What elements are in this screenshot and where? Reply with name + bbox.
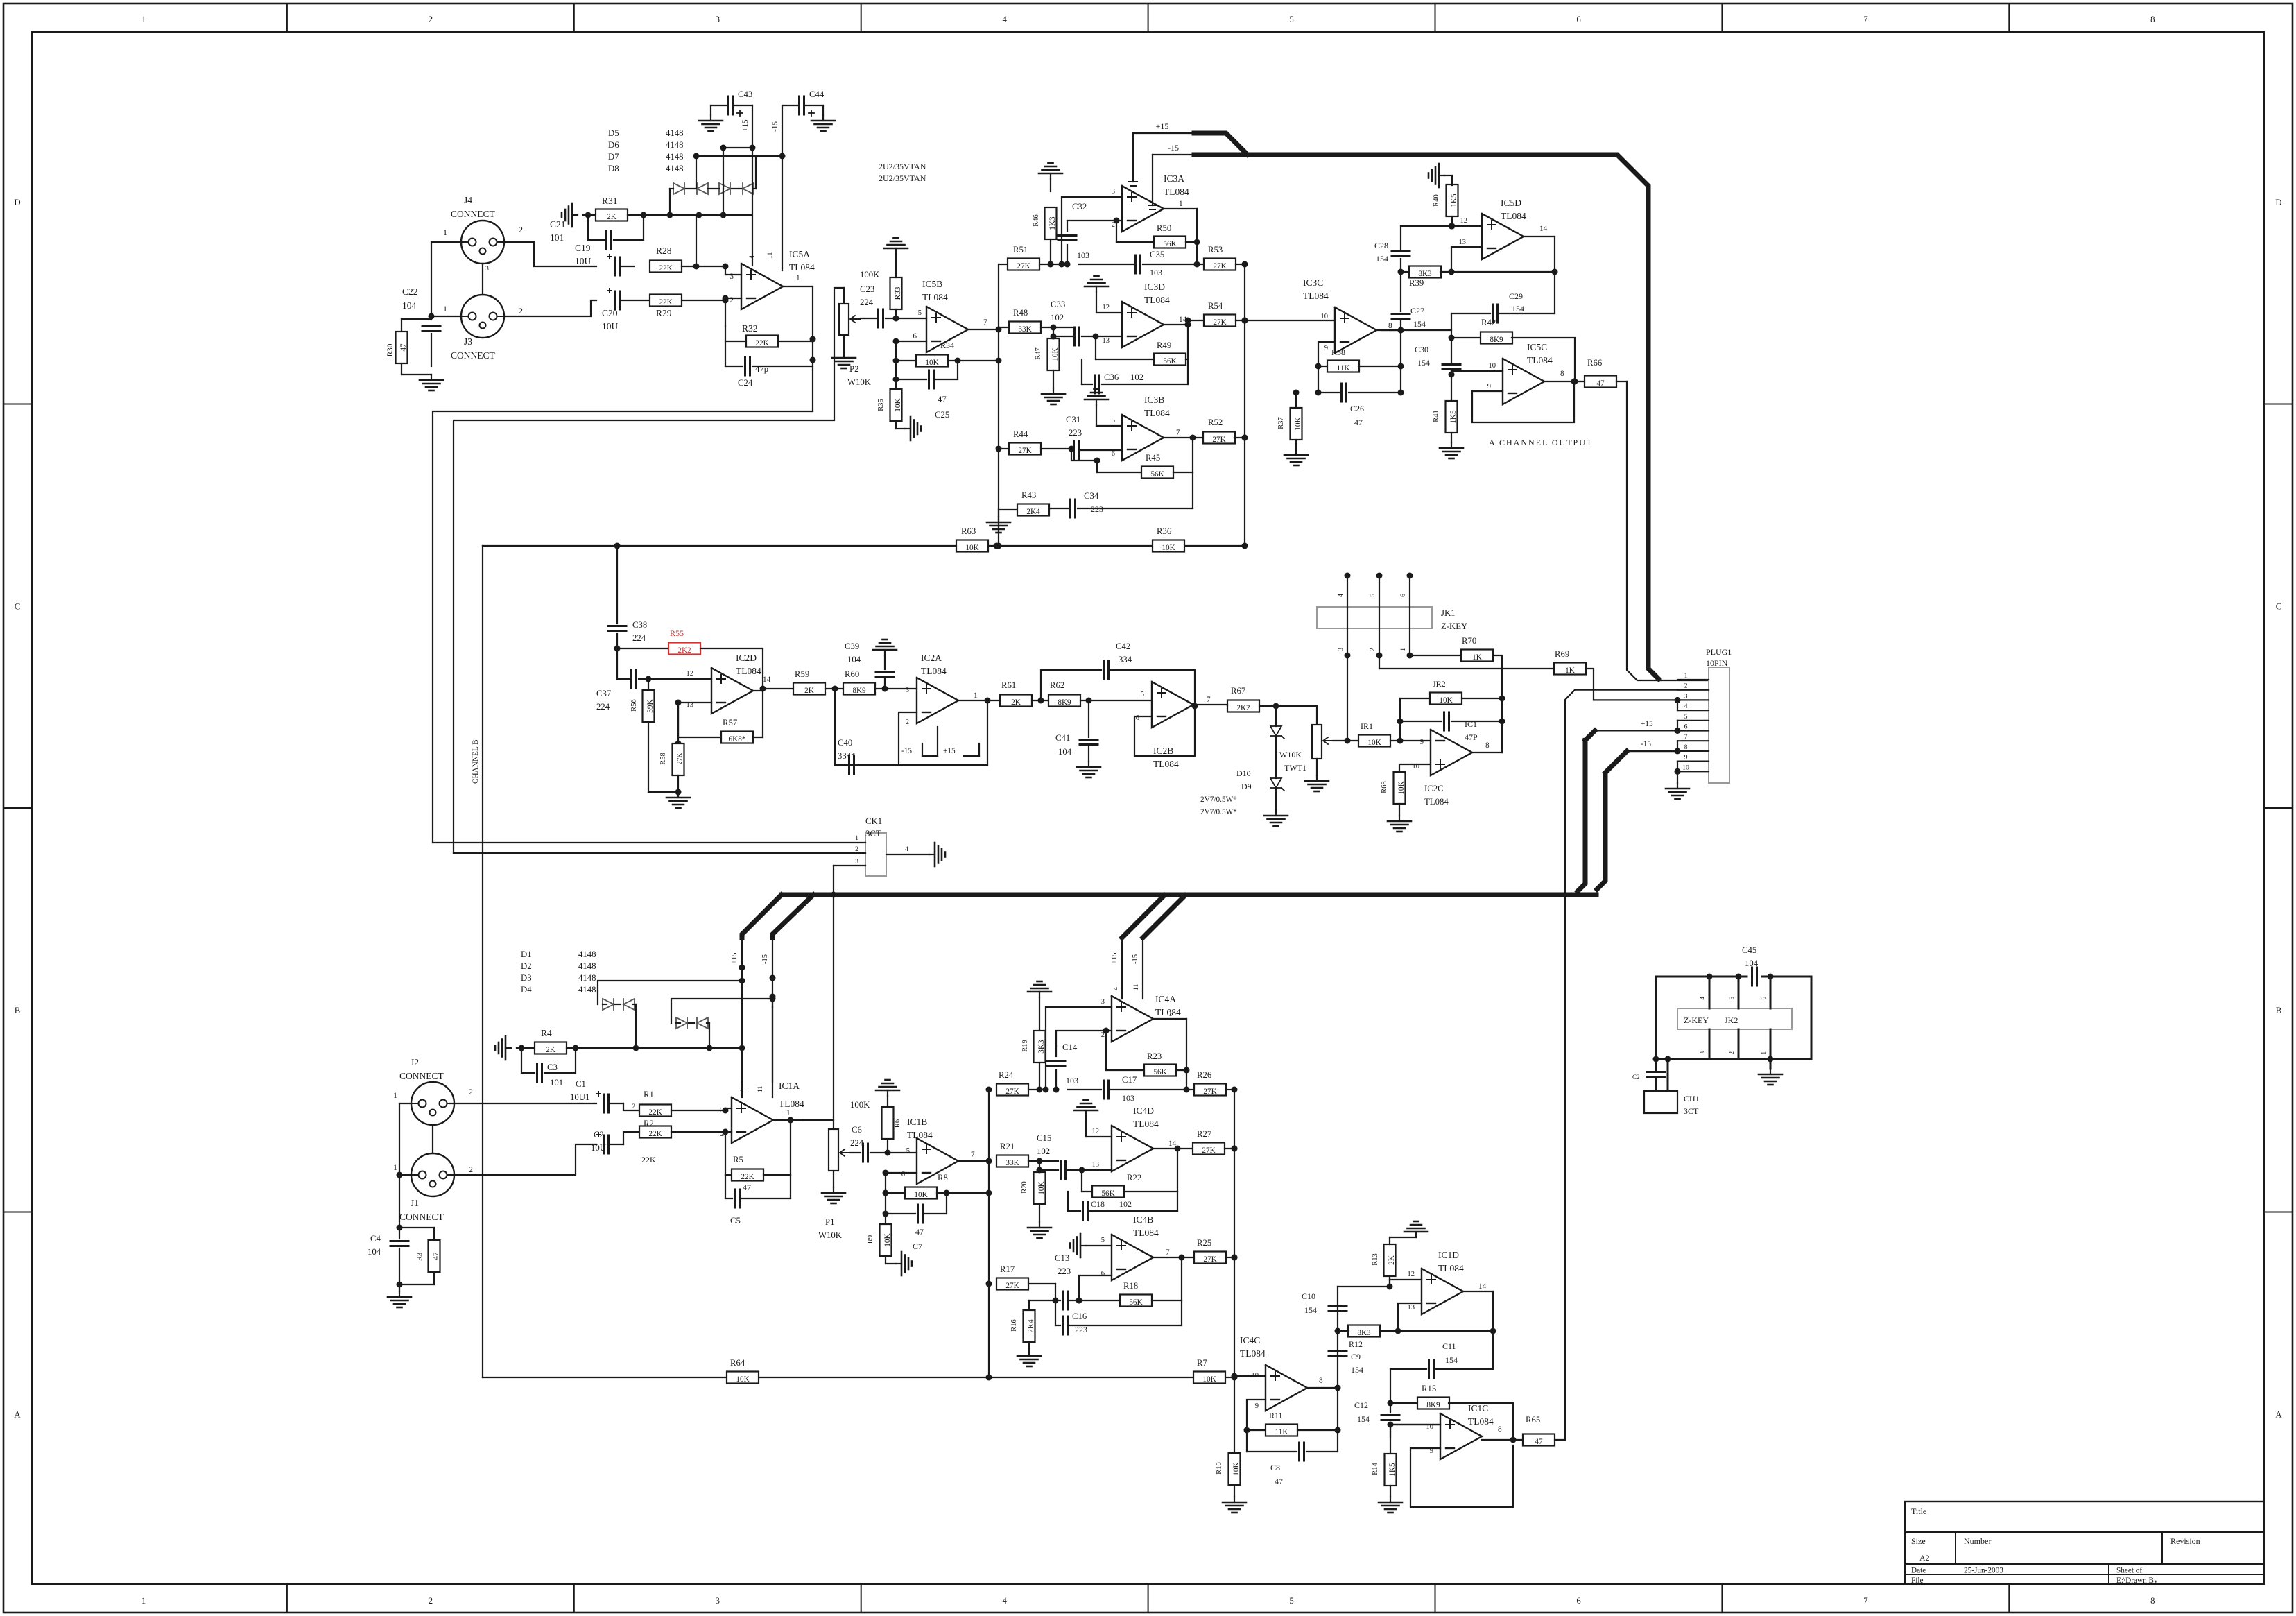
resistor R20 [1021,1158,1046,1223]
svg-text:C2: C2 [1632,1074,1640,1081]
svg-text:7: 7 [971,1151,975,1159]
svg-text:R54: R54 [1208,301,1223,311]
wire J2.1 J1.1 to C4 [397,1103,412,1239]
svg-text:1: 1 [141,1596,146,1606]
svg-text:22K: 22K [641,1155,656,1164]
wire IC2C out [1472,698,1502,753]
svg-text:5: 5 [1369,594,1376,597]
resistor R68 [1381,772,1406,816]
resistor R25 [1182,1238,1238,1264]
svg-text:2: 2 [429,1596,433,1606]
svg-text:102: 102 [1037,1146,1050,1156]
svg-text:C1: C1 [576,1079,586,1089]
svg-text:5: 5 [1684,713,1688,721]
wire C34 branch [1071,450,1100,464]
svg-text:4: 4 [748,255,756,259]
svg-text:1: 1 [1168,1010,1173,1018]
capacitor C16 [1055,1300,1182,1334]
svg-text:+15: +15 [1156,121,1169,131]
svg-text:154: 154 [1445,1355,1458,1365]
svg-text:6: 6 [1760,997,1767,1000]
label A CHANNEL OUTPUT [1489,438,1593,447]
wire PLUG1 pin3 row [1594,699,1677,700]
svg-text:5: 5 [1101,1237,1105,1244]
op-amp IC5A [730,249,815,309]
svg-text:8: 8 [1560,370,1564,378]
diode D7 [719,183,730,194]
svg-text:R55: R55 [670,628,684,638]
wire IC2B -in loop [1134,703,1198,757]
svg-text:R68: R68 [1381,781,1388,793]
svg-text:1: 1 [393,1090,397,1100]
svg-text:10K: 10K [1439,696,1453,705]
svg-text:10U: 10U [575,256,592,266]
svg-text:R67: R67 [1231,686,1245,696]
wire C38 tap [616,546,618,624]
svg-text:IC5D: IC5D [1501,198,1521,208]
svg-text:TL084: TL084 [779,1099,804,1109]
svg-text:1K3: 1K3 [1048,216,1057,230]
svg-text:154: 154 [1413,319,1426,329]
wire IC1C R14 node [1388,1422,1394,1454]
svg-text:D5: D5 [608,128,619,138]
wire IC1D out [1463,1291,1496,1369]
ground C44 [811,105,835,131]
capacitor C30 [1415,338,1460,378]
power -15 IC5A [771,105,782,270]
ground PLUG1 pin10 [1666,771,1689,799]
ground J1 input [388,1291,411,1307]
svg-text:C6: C6 [852,1125,862,1135]
svg-text:22K: 22K [648,1108,662,1117]
wire J3.1 node [429,313,462,320]
svg-text:TL084: TL084 [1144,408,1170,418]
svg-text:10K: 10K [914,1191,928,1199]
svg-text:R35: R35 [877,399,885,411]
ground J3 input [420,375,443,390]
svg-text:IC2A: IC2A [921,653,942,663]
svg-text:R43: R43 [1021,490,1036,500]
svg-text:C21: C21 [550,219,566,230]
svg-text:5: 5 [1141,691,1144,698]
svg-text:8K9: 8K9 [1058,698,1071,707]
svg-text:A: A [14,1410,21,1420]
svg-text:5: 5 [1728,997,1735,1000]
capacitor C12 [1354,1400,1399,1437]
wire J4.1 to C22 node [431,242,461,320]
svg-text:R47: R47 [1035,347,1042,360]
resistor R23 [1103,1028,1187,1077]
svg-text:R9: R9 [867,1235,874,1244]
svg-text:R69: R69 [1555,649,1569,659]
svg-text:2U2/35VTAN: 2U2/35VTAN [879,162,926,171]
svg-text:12: 12 [1092,1128,1100,1135]
svg-text:R14: R14 [1372,1463,1379,1475]
svg-text:IC4B: IC4B [1133,1214,1153,1225]
wire IC1D +in [1390,1280,1422,1287]
svg-text:4: 4 [1337,594,1345,597]
svg-text:R52: R52 [1208,418,1223,427]
svg-text:2V7/0.5W*: 2V7/0.5W* [1200,796,1237,804]
svg-text:104: 104 [1058,747,1072,757]
svg-text:R58: R58 [659,753,667,765]
ground R47 [1042,388,1065,404]
svg-text:27K: 27K [1018,447,1032,455]
svg-text:2: 2 [730,296,734,304]
svg-text:R64: R64 [730,1358,745,1368]
svg-text:22K: 22K [659,298,673,307]
svg-text:C17: C17 [1122,1075,1137,1085]
CK1 pin1 [433,834,865,843]
svg-text:4: 4 [1003,1596,1008,1606]
op-amp IC2C [1413,730,1490,807]
svg-text:B: B [2276,1006,2282,1015]
svg-text:C9: C9 [1351,1352,1361,1361]
svg-text:9: 9 [1487,383,1491,390]
wire -15 to IC1A [761,938,776,1082]
capacitor C10 [1302,1291,1347,1315]
wire IC5C out [1544,379,1585,385]
resistor R50 [1114,218,1198,249]
resistor R19 [1021,997,1046,1093]
svg-text:J3: J3 [464,336,472,347]
svg-text:JK1: JK1 [1441,608,1456,618]
svg-text:File: File [1911,1576,1924,1585]
svg-text:1: 1 [141,15,146,24]
svg-text:W10K: W10K [1279,750,1302,759]
jumper JK1 [1317,607,1467,631]
wire IC2A out [899,698,1000,766]
potentiometer P1 [818,1129,849,1240]
wire R15 right leg [1512,1403,1514,1440]
svg-text:101: 101 [550,232,564,243]
svg-text:1: 1 [796,274,800,282]
svg-text:1: 1 [1179,200,1183,208]
svg-text:C13: C13 [1055,1253,1069,1263]
svg-text:C20: C20 [602,308,618,318]
svg-text:1K5: 1K5 [1388,1463,1397,1477]
svg-text:C22: C22 [402,286,418,297]
svg-text:E:\Drawn By: E:\Drawn By [2116,1576,2158,1585]
resistor R62 [1048,680,1152,707]
wire IC4C +in [1232,1373,1266,1379]
svg-text:R24: R24 [999,1070,1014,1080]
wire JK1 pin6-1 [1399,573,1413,659]
svg-text:1: 1 [1684,672,1688,680]
svg-text:TL084: TL084 [1240,1348,1266,1359]
svg-text:10U: 10U [602,321,619,332]
svg-text:2V7/0.5W*: 2V7/0.5W* [1200,808,1237,816]
svg-text:C: C [15,602,21,612]
resistor JR2 [1400,679,1505,741]
svg-text:2K2: 2K2 [1236,704,1250,712]
svg-text:IC3D: IC3D [1144,282,1165,292]
svg-text:C26: C26 [1350,404,1364,413]
svg-text:C35: C35 [1150,250,1164,259]
svg-text:TL084: TL084 [1527,355,1553,366]
svg-text:103: 103 [1066,1076,1078,1085]
svg-text:-15: -15 [901,747,912,755]
svg-text:25-Jun-2003: 25-Jun-2003 [1964,1567,2003,1575]
capacitor C13 [1055,1253,1079,1309]
svg-text:5: 5 [906,1147,910,1155]
wire IC3A -in [1067,220,1122,221]
svg-text:2: 2 [429,15,433,24]
svg-text:TL084: TL084 [1303,291,1329,301]
svg-text:33K: 33K [1005,1159,1019,1167]
ground R10 [1223,1497,1246,1513]
wire diode clamp rails [667,145,786,218]
resistor R2 [623,1119,725,1164]
resistor R13 [1372,1237,1416,1287]
wire IC5D out [1524,237,1555,313]
resistor R11 [1247,1411,1338,1436]
svg-text:4148: 4148 [666,164,684,173]
svg-text:C14: C14 [1062,1042,1078,1052]
capacitor C9 [1329,1352,1363,1375]
svg-text:3: 3 [906,687,909,694]
wire IC4C -in [1244,1400,1266,1452]
wire IC2D -in [675,700,712,747]
svg-text:47: 47 [1275,1477,1283,1486]
capacitor C5 [725,1175,791,1226]
svg-text:D3: D3 [521,973,532,983]
svg-text:22K: 22K [755,339,769,347]
power pins IC2A [901,727,979,756]
svg-text:154: 154 [1357,1414,1370,1424]
ground R68 [1388,816,1411,832]
svg-text:3: 3 [716,15,720,24]
capacitor C32 [1058,202,1089,268]
op-amp IC5B [913,279,987,352]
svg-text:2: 2 [1369,648,1376,651]
resistor R46 [1033,179,1057,268]
wire IC4D out [1153,1146,1181,1192]
capacitor C31 [1066,415,1122,459]
svg-text:B: B [15,1006,21,1015]
svg-text:1: 1 [443,304,447,313]
svg-text:3CT: 3CT [1684,1106,1699,1116]
connector J4 [443,195,523,273]
wire +15 to PLUG1 pin6 [1595,720,1677,730]
svg-text:47: 47 [915,1227,924,1237]
diode D4 [697,1017,708,1029]
svg-text:C12: C12 [1354,1400,1368,1410]
svg-text:104: 104 [847,655,861,664]
svg-text:C15: C15 [1037,1133,1051,1143]
svg-text:R2: R2 [644,1119,654,1128]
svg-text:C36: C36 [1104,372,1119,382]
svg-text:R40: R40 [1433,194,1440,207]
op-amp IC5C [1487,342,1564,404]
op-amp IC3C [1303,277,1392,353]
svg-text:+15: +15 [731,953,739,964]
svg-text:4: 4 [1684,703,1688,710]
svg-text:R20: R20 [1021,1181,1028,1194]
wire J4.3-J3.3 [482,264,483,295]
resistor R9 [867,1214,896,1264]
capacitor C2 [450,1130,623,1175]
svg-text:R26: R26 [1197,1070,1211,1080]
svg-text:IC4C: IC4C [1240,1335,1260,1346]
svg-text:6: 6 [1576,1596,1580,1606]
svg-text:IC2B: IC2B [1153,746,1173,756]
svg-text:1K: 1K [1472,653,1483,662]
svg-text:6: 6 [1136,714,1139,722]
potentiometer P2 [839,288,872,387]
resistor R32 [725,323,813,366]
svg-text:R49: R49 [1157,341,1171,350]
svg-text:5: 5 [918,309,922,317]
svg-text:100K: 100K [860,270,880,280]
svg-text:IC3A: IC3A [1164,173,1184,184]
ground R19 [1028,981,1051,997]
svg-text:2K: 2K [804,687,815,695]
wire IC3D out [1164,322,1191,360]
svg-text:2: 2 [469,1087,473,1097]
capacitor C3 [519,1045,579,1088]
svg-text:J4: J4 [464,195,472,205]
svg-text:-15: -15 [1168,143,1179,153]
svg-text:C19: C19 [575,243,591,253]
wire IC4A -in [1056,1031,1112,1046]
svg-text:27K: 27K [1005,1088,1019,1096]
ground C41 [1077,762,1100,777]
wire IC2D +in [648,670,711,679]
wire IC3C -in [1315,342,1336,396]
svg-text:C8: C8 [1270,1463,1280,1472]
wire IC5D -in [1451,247,1482,272]
svg-text:8: 8 [1485,741,1490,750]
svg-text:224: 224 [850,1138,864,1148]
svg-text:R5: R5 [733,1155,743,1164]
ground R13 [1404,1221,1428,1237]
svg-text:27K: 27K [1212,436,1226,444]
svg-text:4148: 4148 [578,961,596,971]
svg-text:C42: C42 [1116,642,1130,651]
svg-text:D9: D9 [1241,782,1252,791]
svg-text:103: 103 [1077,250,1089,260]
svg-text:Date: Date [1911,1567,1926,1575]
svg-text:12: 12 [1460,217,1468,225]
capacitor C20 [602,289,650,332]
svg-text:8K9: 8K9 [1426,1401,1440,1409]
svg-text:D8: D8 [608,164,619,173]
connector J3 [443,295,523,361]
svg-text:TL084: TL084 [1468,1416,1494,1427]
svg-text:R56: R56 [630,699,638,712]
capacitor C39 [845,642,894,689]
svg-text:R70: R70 [1462,636,1476,646]
svg-text:R34: R34 [940,341,954,350]
svg-text:8K3: 8K3 [1418,270,1432,278]
svg-text:4148: 4148 [578,949,596,959]
connector J1 [393,1153,473,1222]
resistor R64 [727,1358,759,1384]
resistor R56 [630,676,655,793]
svg-text:Z-KEY: Z-KEY [1441,621,1467,631]
ground C43 [699,105,723,131]
op-amp IC4A [1101,994,1181,1042]
svg-text:JR2: JR2 [1433,679,1446,689]
svg-text:R41: R41 [1433,410,1440,422]
wire +15 to IC4A [1111,938,1122,999]
resistor R16 [1010,1300,1055,1350]
capacitor C14 [1047,1042,1078,1093]
ground R14 [1379,1497,1402,1513]
ground P1 [822,1187,845,1203]
capacitor C26 [1318,384,1401,427]
diode D1-D4 labels [521,949,596,995]
wire +15 rail A [1129,121,1194,186]
capacitor C11 [1390,1341,1493,1403]
op-amp IC3D [1103,282,1187,347]
zener D10 D9 [1200,706,1284,816]
wire R63 row [483,543,1245,1378]
svg-text:D2: D2 [521,961,532,971]
svg-text:47: 47 [1596,379,1605,388]
capacitor IC1 47P [1397,712,1505,742]
svg-text:W10K: W10K [818,1230,843,1240]
svg-text:10U1: 10U1 [570,1092,589,1102]
wire diode clamps B [598,978,776,1051]
label 2U2/35VTAN [879,162,926,183]
svg-text:47p: 47p [755,364,768,374]
svg-text:47: 47 [1535,1438,1543,1446]
svg-text:6: 6 [913,332,917,341]
svg-text:224: 224 [860,298,874,307]
svg-text:47P: 47P [1465,732,1478,742]
svg-text:IC3C: IC3C [1303,277,1323,288]
resistor R22 [1079,1167,1178,1198]
svg-text:103: 103 [1150,268,1162,277]
svg-text:224: 224 [632,633,646,643]
svg-text:R15: R15 [1422,1384,1436,1393]
resistor R34 [896,341,1002,367]
svg-text:R53: R53 [1208,245,1223,255]
wire -15 rail A [1148,143,1194,209]
jumper JK2 [1677,1008,1792,1029]
svg-text:6: 6 [1399,594,1407,597]
capacitor C17 [1068,1075,1186,1103]
capacitor C7 [886,1205,947,1251]
resistor R65 [1523,1415,1565,1446]
svg-text:10: 10 [1682,764,1689,771]
svg-text:R62: R62 [1050,680,1064,690]
svg-text:56K: 56K [1129,1298,1143,1307]
svg-text:11: 11 [757,1085,764,1092]
resistor R55 [614,628,763,655]
svg-text:R7: R7 [1197,1358,1207,1368]
svg-text:R10: R10 [1216,1462,1223,1475]
resistor R43 [999,490,1049,516]
svg-text:C29: C29 [1509,291,1523,301]
op-amp IC3B [1112,395,1180,461]
wire IC4A +in [1043,1007,1112,1093]
svg-text:3: 3 [485,265,489,273]
svg-text:13: 13 [1459,239,1467,246]
resistor R24 [986,1070,1046,1096]
svg-text:22K: 22K [741,1173,754,1181]
svg-text:10K: 10K [1051,347,1060,361]
capacitor C18 [1068,1192,1177,1220]
svg-text:R13: R13 [1372,1253,1379,1266]
resistor R36 [1153,526,1184,552]
svg-text:C3: C3 [547,1063,558,1072]
ground IC4B [1070,1234,1112,1257]
resistor R38 [1318,330,1404,396]
svg-text:223: 223 [1091,504,1103,514]
